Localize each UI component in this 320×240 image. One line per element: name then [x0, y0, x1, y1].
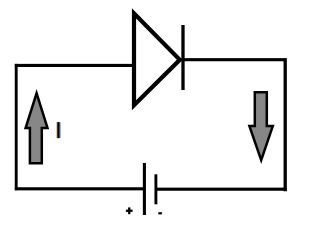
label - (battery negative)	[158, 212, 162, 214]
wire top left segment	[15, 64, 134, 67]
wire top right segment	[183, 58, 287, 61]
current arrow up (left branch)	[26, 93, 48, 163]
label I (current)	[57, 122, 61, 138]
diode D1 (anode triangle)	[134, 13, 180, 105]
label + (battery positive)	[126, 207, 133, 214]
diode D1 cathode bar	[181, 25, 184, 90]
wire bottom right segment	[156, 188, 287, 191]
current arrow down (right branch)	[249, 92, 272, 160]
battery positive plate (long)	[143, 163, 146, 215]
battery negative plate (short)	[154, 174, 157, 204]
wire right edge	[284, 58, 287, 191]
wire left edge	[15, 64, 18, 190]
wire bottom left segment	[15, 187, 144, 190]
